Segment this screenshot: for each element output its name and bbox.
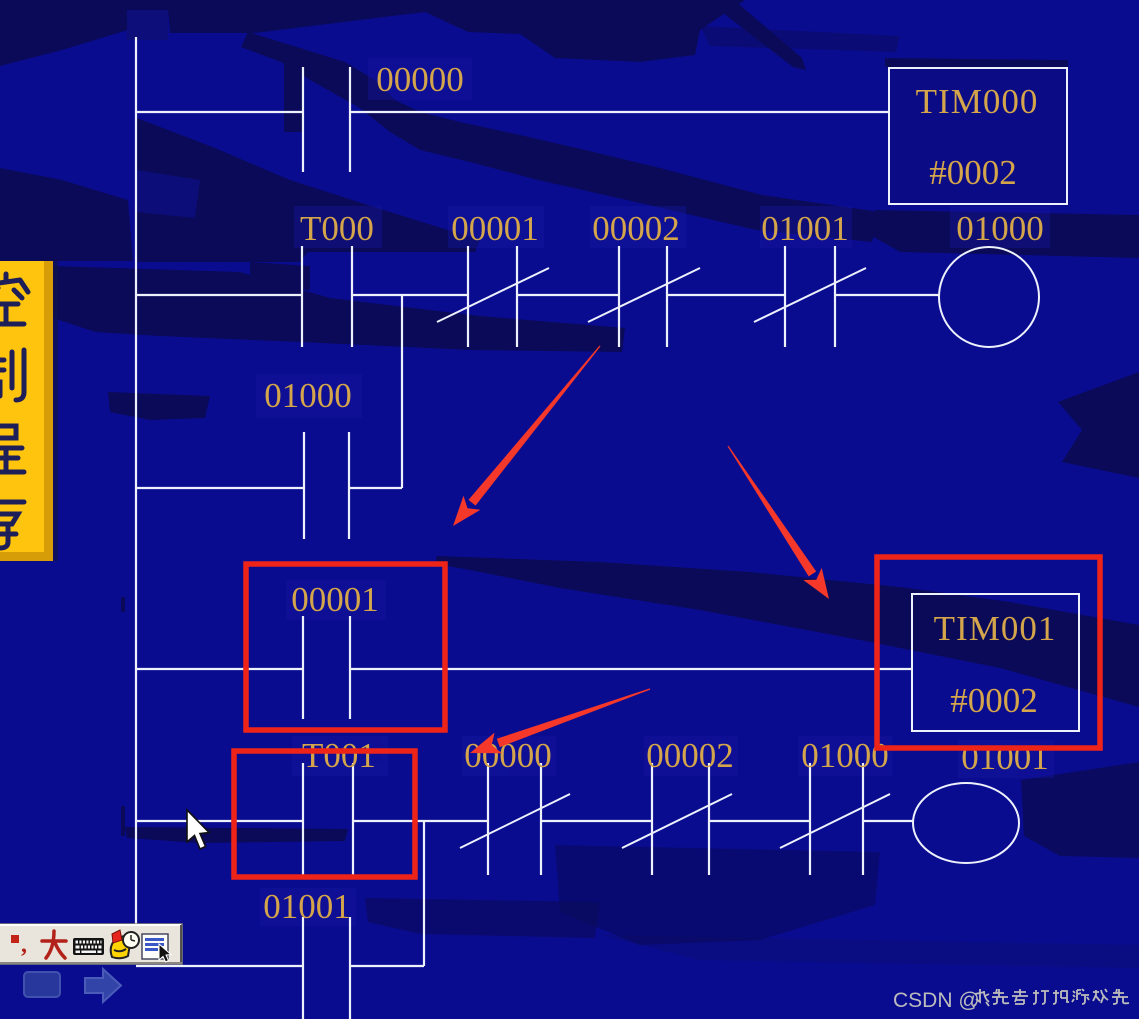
svg-text:#0002: #0002 <box>950 681 1038 720</box>
svg-text:#0002: #0002 <box>929 153 1017 192</box>
svg-text:T001: T001 <box>302 736 376 775</box>
svg-text:TIM001: TIM001 <box>934 609 1057 648</box>
svg-text:00001: 00001 <box>291 580 379 619</box>
svg-text:01001: 01001 <box>961 738 1049 777</box>
svg-text:00002: 00002 <box>646 736 734 775</box>
svg-text:CSDN @: CSDN @ <box>893 989 980 1012</box>
svg-text:01001: 01001 <box>761 209 849 248</box>
svg-text:,: , <box>21 932 27 958</box>
svg-text:00000: 00000 <box>376 60 464 99</box>
svg-text:00001: 00001 <box>451 209 539 248</box>
svg-text:01000: 01000 <box>956 209 1044 248</box>
svg-text:01000: 01000 <box>264 376 352 415</box>
svg-text:01001: 01001 <box>263 887 351 926</box>
svg-text:00002: 00002 <box>592 209 680 248</box>
svg-text:T000: T000 <box>300 209 374 248</box>
svg-text:TIM000: TIM000 <box>916 82 1039 121</box>
